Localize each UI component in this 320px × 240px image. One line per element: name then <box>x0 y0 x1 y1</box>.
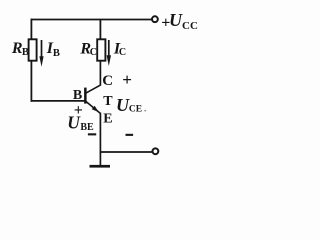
svg-text:U: U <box>116 95 130 115</box>
label Ube <box>67 112 94 132</box>
svg-text:E: E <box>103 111 112 126</box>
resistor RB <box>29 39 37 60</box>
label + of Ube <box>74 102 83 119</box>
svg-text:B: B <box>22 47 29 58</box>
terminal bottom right <box>153 148 159 154</box>
label T <box>103 94 113 109</box>
ground <box>90 152 111 168</box>
label RC <box>79 40 97 58</box>
wire right branch upper <box>99 20 101 40</box>
svg-text:B: B <box>53 48 60 59</box>
label + of Uce <box>122 70 132 89</box>
label +Ucc <box>161 10 198 32</box>
wire top rail <box>31 19 152 21</box>
svg-text:U: U <box>67 112 81 132</box>
label Uce <box>116 95 146 115</box>
svg-text:C: C <box>102 73 113 89</box>
current arrow IB <box>39 40 43 67</box>
wire base lead <box>31 100 85 102</box>
label - of Ube <box>88 133 96 135</box>
label C <box>102 73 113 89</box>
label RB <box>11 40 29 58</box>
transistor T emitter lead with arrow <box>86 101 101 113</box>
svg-text:CE: CE <box>129 104 142 114</box>
svg-text:CC: CC <box>182 20 198 32</box>
wire bottom rail <box>100 151 151 153</box>
wire left branch lower <box>30 61 32 102</box>
svg-text:C: C <box>90 47 97 58</box>
svg-text:T: T <box>103 94 113 109</box>
label B <box>73 88 82 103</box>
current arrow IC <box>107 40 111 66</box>
transistor T collector lead <box>86 85 101 93</box>
terminal +Ucc <box>152 16 158 22</box>
resistor RC <box>97 39 105 60</box>
svg-text:U: U <box>169 10 183 30</box>
label E <box>103 111 112 126</box>
label IB <box>46 40 60 59</box>
transistor T base bar <box>84 88 87 104</box>
label IC <box>113 40 126 58</box>
svg-text:BE: BE <box>80 122 94 133</box>
svg-text:+: + <box>122 70 132 89</box>
wire collector vertical <box>99 61 101 86</box>
wire left branch upper <box>30 19 32 40</box>
label - of Uce <box>126 134 134 136</box>
svg-text:B: B <box>73 88 82 103</box>
svg-text:C: C <box>119 47 126 58</box>
wire emitter vertical <box>99 113 101 153</box>
